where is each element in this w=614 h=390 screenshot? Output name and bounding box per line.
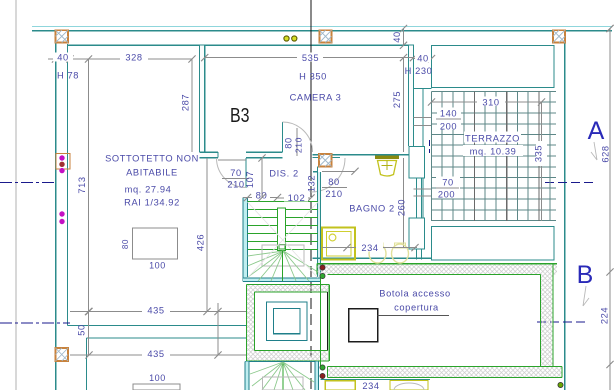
wall outer left (55, 30, 57, 390)
section arrow A (591, 142, 597, 160)
lower bagno wall top (321, 379, 431, 381)
label botola line2 (394, 303, 439, 313)
svg-text:100: 100 (149, 373, 166, 383)
svg-text:Botola accesso: Botola accesso (379, 289, 450, 299)
door 70/210 arc (217, 158, 247, 188)
botola hatch band bottom (328, 367, 563, 378)
label sottotetto 3 (125, 185, 172, 195)
stair cross break lines (248, 202, 319, 278)
svg-text:80: 80 (284, 137, 294, 149)
svg-text:426: 426 (196, 234, 206, 251)
vent dots camera (284, 36, 297, 41)
svg-text:mq. 27.94: mq. 27.94 (125, 185, 172, 195)
svg-text:40: 40 (57, 53, 69, 63)
lower stairwell top wall (245, 361, 319, 363)
svg-text:40: 40 (392, 31, 402, 43)
botola square (349, 309, 378, 342)
door dot lower (558, 382, 563, 387)
stairwell west wall (243, 198, 248, 282)
dim 628 vertical (601, 145, 611, 162)
pillar top-left (56, 30, 69, 42)
dim 70-200 window (436, 177, 460, 200)
dim 713 vertical (77, 55, 92, 355)
svg-text:435: 435 (147, 349, 164, 359)
dim 50 vertical (77, 324, 87, 336)
label terrazzo mq (463, 145, 523, 157)
wall stub below pillar (313, 167, 318, 172)
section B dash small vertical (429, 140, 431, 153)
section B dash right (537, 321, 586, 323)
dim text 535 (297, 53, 323, 64)
bidet (392, 243, 409, 263)
botola leader (378, 315, 450, 317)
svg-text:200: 200 (438, 190, 455, 200)
dim 260 vertical (397, 158, 407, 248)
roof window sottotetto (133, 228, 178, 259)
svg-text:SOTTOTETTO NON: SOTTOTETTO NON (105, 154, 199, 164)
svg-text:H 230: H 230 (405, 66, 433, 76)
dim 80 roof window (121, 239, 130, 249)
svg-text:102: 102 (288, 193, 306, 204)
window sill 70-200 (414, 189, 433, 196)
label H 78 (57, 71, 79, 81)
dim line 40 terrace (414, 53, 436, 64)
lower stair centre (282, 362, 284, 390)
lower dim 234 (362, 381, 379, 390)
dim line top-left (48, 55, 196, 62)
svg-text:40: 40 (417, 54, 429, 64)
wall camera east (409, 45, 414, 146)
svg-text:TERRAZZO: TERRAZZO (465, 134, 520, 144)
symbol box left wall (56, 154, 70, 170)
dim 435 upper (70, 304, 246, 315)
wall bagno north inner (313, 156, 341, 158)
door bagno arc (311, 158, 345, 192)
stair centre line (282, 251, 284, 281)
stair treads (248, 202, 319, 250)
parapet bottom terrace (432, 227, 555, 261)
lower shower tray (325, 381, 355, 390)
dim 310 (428, 97, 545, 108)
dim text 40 top-left (53, 53, 73, 63)
dim 80-210 camera door rot (284, 128, 304, 156)
svg-text:628: 628 (601, 145, 611, 162)
lower bathtub (390, 381, 428, 390)
wall bagno north (313, 154, 416, 156)
section A dash right (545, 182, 597, 184)
symbol dots lower (59, 211, 64, 224)
svg-text:70: 70 (442, 178, 454, 188)
label terrazzo (464, 132, 521, 144)
dim line camera top (201, 54, 417, 61)
dim 335 vertical (534, 102, 548, 221)
axis dash-dot left upper (0, 182, 57, 184)
wall terrace top link (414, 88, 432, 90)
label DIS 2 (269, 169, 298, 179)
wall B3 south-mid (246, 152, 283, 157)
dim 80-210 bagno door (322, 177, 347, 199)
shower tray (322, 228, 355, 260)
label H 350 (299, 71, 327, 81)
svg-text:275: 275 (392, 91, 402, 108)
svg-text:210: 210 (294, 137, 304, 153)
svg-text:210: 210 (325, 189, 342, 199)
dim 100 roof window (149, 261, 166, 271)
label sottotetto 1 (105, 154, 199, 164)
label botola line1 (379, 289, 450, 299)
door camera arc (283, 122, 313, 152)
svg-text:234: 234 (361, 243, 378, 253)
svg-text:200: 200 (440, 122, 457, 132)
section line vertical solid (310, 0, 312, 170)
svg-text:328: 328 (125, 53, 142, 63)
wall outer top (32, 30, 612, 32)
wall B3 south-west (200, 152, 219, 157)
dim 287 vertical (181, 59, 193, 152)
svg-text:H 350: H 350 (299, 71, 327, 81)
door 70/210 leaf (245, 158, 247, 188)
label B3 (230, 105, 250, 127)
roof window lower room (133, 384, 180, 390)
dim 40 vertical top (392, 25, 407, 49)
dim line right (606, 25, 613, 390)
lower stairwell east wall (315, 362, 319, 390)
wall partition sottotetto-camera (200, 45, 205, 152)
stairwell south wall (243, 278, 321, 282)
svg-text:140: 140 (440, 109, 457, 119)
sheet border line (15, 0, 17, 390)
wall terrace west b (422, 178, 424, 218)
wall outer right (564, 42, 566, 390)
dot red botola top (320, 265, 325, 270)
svg-text:BAGNO 2: BAGNO 2 (349, 204, 395, 214)
svg-text:234: 234 (362, 381, 379, 390)
section letter B (577, 261, 594, 289)
svg-text:B: B (577, 261, 594, 289)
jamb box bagno-terrace (409, 218, 425, 249)
lower stair fan (250, 362, 314, 390)
label H 230 (405, 66, 433, 76)
svg-text:287: 287 (181, 94, 191, 111)
dim 70-210 door (222, 168, 249, 190)
stair winder fan (248, 251, 319, 281)
svg-text:310: 310 (482, 97, 499, 107)
wc (369, 243, 386, 263)
svg-text:713: 713 (77, 176, 87, 193)
wall bagno west (318, 172, 321, 282)
lower stair outline (263, 377, 304, 390)
wall bagno east (417, 155, 422, 260)
dot green botola bottom (320, 365, 325, 370)
shaft east outer green (328, 285, 330, 362)
stair landing outline (262, 245, 304, 266)
dim 102 stairs (278, 193, 315, 205)
label BAGNO 2 (349, 204, 395, 214)
jamb box camera-terrace (409, 147, 425, 179)
label sottotetto 4 (124, 198, 180, 208)
dim 132 vertical (307, 175, 317, 192)
dim 80 stairs (243, 190, 281, 202)
stair stringer (278, 208, 286, 251)
symbol dots upper (59, 155, 64, 173)
dim 435 lower (70, 348, 246, 359)
svg-text:224: 224 (600, 307, 610, 324)
wall lower room west (86, 338, 88, 390)
svg-text:70: 70 (230, 168, 242, 178)
dim 234 (322, 242, 419, 253)
sink bagno (375, 157, 399, 176)
pillar left lower (56, 348, 69, 361)
wall top inner (sottotetto+camera) (68, 44, 415, 46)
shaft hatch band (247, 285, 330, 362)
corner tick top right (606, 25, 613, 32)
wall terrace west a (422, 89, 424, 148)
botola hatch band right (541, 264, 558, 367)
svg-text:80: 80 (121, 239, 130, 249)
svg-text:50: 50 (77, 324, 87, 336)
svg-text:ABITABILE: ABITABILE (126, 168, 178, 178)
terrazzo floor grid (432, 92, 557, 222)
svg-text:132: 132 (307, 175, 317, 192)
lower stairwell west wall (245, 362, 249, 390)
axis dash-dot left lower (0, 322, 70, 324)
section letter A (588, 117, 605, 145)
dot green botola top (320, 273, 325, 278)
dim 140-200 window (436, 108, 461, 132)
svg-text:535: 535 (302, 53, 319, 63)
svg-text:H 78: H 78 (57, 71, 79, 81)
section arrow B (583, 286, 589, 306)
terrazzo grid heavy verticals (475, 92, 540, 222)
window sill 140-200 (414, 118, 433, 126)
shaft inner square outer (267, 302, 308, 341)
svg-text:mq. 10.39: mq. 10.39 (470, 147, 517, 157)
svg-text:B3: B3 (230, 105, 250, 127)
svg-text:100: 100 (149, 261, 166, 271)
dim ext line x218 (217, 303, 219, 355)
dim 224 vertical (600, 307, 610, 324)
svg-text:CAMERA 3: CAMERA 3 (290, 93, 342, 103)
section line vertical dashed (310, 170, 312, 390)
stair stringer cap (279, 245, 285, 250)
svg-text:80: 80 (328, 177, 340, 187)
shaft east edge (327, 292, 329, 351)
dim text 328 (120, 53, 148, 63)
svg-text:210: 210 (227, 180, 244, 190)
dim 275 vertical (392, 54, 407, 152)
svg-text:335: 335 (534, 145, 544, 162)
pillar top-middle (320, 30, 332, 42)
dim 107 vertical (245, 154, 266, 201)
shower shelf line (322, 168, 359, 175)
pillar top-right (553, 30, 565, 42)
dot red botola bottom (320, 373, 325, 378)
wall sottotetto south (68, 325, 247, 327)
botola hatch band top (317, 264, 557, 275)
door 70/210 threshold (218, 159, 246, 161)
wall outer top light edge (32, 26, 612, 28)
shaft inner square inner (274, 309, 301, 334)
pillar dis2-bagno corner (319, 154, 332, 167)
svg-text:260: 260 (397, 199, 407, 216)
wall bagno south (313, 257, 432, 259)
svg-text:435: 435 (147, 305, 164, 315)
svg-text:A: A (588, 117, 605, 145)
svg-text:DIS. 2: DIS. 2 (269, 169, 298, 179)
label CAMERA 3 (290, 93, 342, 103)
svg-text:copertura: copertura (394, 303, 439, 313)
parapet top terrace (432, 46, 555, 88)
dim 426 vertical (196, 158, 211, 315)
label 100 lower (149, 373, 166, 383)
door camera leaf (282, 122, 284, 152)
svg-text:107: 107 (245, 171, 255, 188)
label sottotetto 2 (126, 168, 178, 178)
wall lower room north (87, 337, 247, 339)
svg-text:RAI 1/34.92: RAI 1/34.92 (124, 198, 180, 208)
botola west edge (320, 275, 322, 367)
wall inner left (67, 44, 69, 326)
